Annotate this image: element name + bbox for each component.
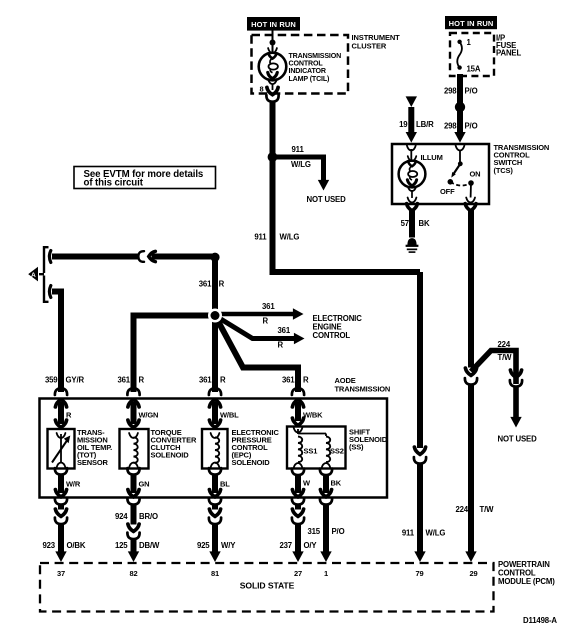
wire 361 R from connector A [49, 251, 138, 263]
svg-text:924: 924 [115, 512, 128, 521]
wire 125 DB/W [115, 539, 160, 553]
label 361 R mid [199, 280, 225, 289]
connector into AODE col4 [292, 388, 304, 407]
svg-text:BR/O: BR/O [139, 512, 158, 521]
svg-text:82: 82 [129, 569, 137, 578]
wire from HOT IN RUN to lamp [272, 31, 274, 54]
svg-text:R: R [278, 341, 284, 350]
label 359 GY/R [45, 376, 85, 385]
svg-text:224: 224 [498, 340, 511, 349]
svg-text:(SS): (SS) [349, 443, 364, 452]
svg-text:GN: GN [139, 480, 150, 489]
svg-text:27: 27 [294, 569, 302, 578]
svg-text:361: 361 [282, 376, 295, 385]
svg-text:361: 361 [117, 376, 130, 385]
sensor TOT [48, 428, 113, 469]
svg-text:P/O: P/O [465, 87, 478, 96]
svg-text:O/BK: O/BK [67, 541, 86, 550]
wire 315 P/O [307, 505, 344, 554]
svg-text:79: 79 [415, 569, 423, 578]
connector out of AODE col4 [292, 490, 304, 505]
solenoid TCC [120, 428, 197, 469]
wire arrow 361 R electronic engine control 2 [215, 316, 305, 350]
switch contacts TCS [440, 150, 480, 198]
wire W/GN to TCC solenoid [128, 402, 158, 427]
svg-text:SOLENOID: SOLENOID [151, 451, 190, 460]
label 361 R col2 [117, 376, 144, 385]
svg-text:37: 37 [57, 569, 65, 578]
svg-text:361: 361 [199, 280, 212, 289]
fuse 15A [457, 38, 481, 74]
wire W from SS1 [292, 469, 311, 493]
wire 237 O/Y [279, 505, 317, 554]
wire W/BK to shift solenoid [292, 402, 323, 425]
svg-text:W/Y: W/Y [221, 541, 236, 550]
wire 224 T/W from TCS switch [465, 198, 476, 368]
wire branch 911 W/LG not used [273, 145, 347, 204]
svg-text:NOT USED: NOT USED [307, 195, 347, 204]
lamp TCIL [259, 48, 341, 84]
svg-text:W/LG: W/LG [280, 233, 300, 242]
svg-text:SENSOR: SENSOR [77, 458, 109, 467]
label 911 W/LG lower [402, 529, 445, 538]
note box See EVTM [74, 167, 216, 189]
connector out of AODE col2 [127, 490, 139, 505]
connector in not-used branch [498, 370, 538, 443]
svg-text:361: 361 [262, 302, 275, 311]
svg-text:TRANSMISSION: TRANSMISSION [335, 384, 391, 393]
svg-text:224: 224 [455, 505, 468, 514]
svg-text:LAMP (TCIL): LAMP (TCIL) [289, 75, 331, 83]
solenoid EPC [202, 428, 279, 469]
svg-text:911: 911 [402, 529, 415, 538]
AODE transmission box [40, 376, 391, 498]
wire 19 LB/R feed [399, 96, 434, 150]
svg-text:81: 81 [211, 569, 219, 578]
node junction on 911 wire [268, 152, 278, 162]
svg-text:MODULE (PCM): MODULE (PCM) [498, 577, 555, 586]
inline connector in 361 wire [138, 251, 155, 262]
power feed HOT IN RUN (instrument cluster) [247, 17, 300, 31]
connector arrow into PCM pin 82 [128, 551, 139, 562]
svg-text:BK: BK [331, 479, 342, 488]
wire 224 T/W to PCM [468, 385, 474, 554]
svg-text:8: 8 [259, 85, 263, 94]
wire branch 224 T/W not used [471, 340, 516, 384]
label 224 T/W lower [455, 505, 494, 514]
svg-text:57: 57 [401, 219, 409, 228]
svg-text:PANEL: PANEL [496, 49, 521, 58]
wire W/R from TOT sensor [55, 468, 81, 493]
label 361 R col4 [282, 376, 309, 385]
svg-text:315: 315 [307, 527, 320, 536]
connector arrow into PCM pin 29 [465, 551, 476, 562]
svg-text:1: 1 [324, 569, 328, 578]
svg-text:P/O: P/O [465, 122, 478, 131]
label 911 W/LG [254, 233, 299, 242]
instrument cluster box [252, 33, 401, 94]
svg-text:237: 237 [279, 541, 292, 550]
connector into AODE col2 [127, 388, 139, 407]
svg-text:15A: 15A [467, 65, 481, 74]
svg-text:CLUSTER: CLUSTER [352, 42, 387, 51]
svg-text:SS2: SS2 [330, 447, 344, 456]
wire 57 BK to ground [401, 198, 430, 238]
wire lamp output through connector [266, 84, 278, 102]
svg-text:DB/W: DB/W [139, 541, 160, 550]
wire GN from TCC solenoid [127, 468, 149, 493]
wire 298 P/O from fuse [457, 74, 463, 134]
svg-text:SOLENOID: SOLENOID [232, 458, 271, 467]
connector arrow into PCM pin 27 [292, 551, 303, 562]
solenoid SS shift [287, 427, 388, 469]
connector arrow into TCS [454, 132, 465, 151]
lamp ILLUM [399, 149, 443, 198]
powertrain control module box PCM [40, 560, 555, 612]
wire 923 O/BK [42, 505, 85, 554]
svg-text:361: 361 [199, 376, 212, 385]
svg-text:T/W: T/W [498, 353, 513, 362]
svg-text:BK: BK [419, 219, 430, 228]
node corner dot [210, 253, 219, 262]
svg-text:R: R [66, 411, 72, 420]
wire arrow 361 R electronic engine control 1 [215, 302, 304, 326]
wire BL from EPC solenoid [209, 468, 230, 493]
label electronic engine control [313, 314, 363, 340]
svg-text:923: 923 [42, 541, 55, 550]
wire 925 W/Y [197, 505, 236, 554]
svg-text:D11498-A: D11498-A [523, 616, 557, 625]
wire W/BL to EPC solenoid [209, 402, 239, 427]
svg-text:298: 298 [444, 122, 457, 131]
connector out of AODE col3 [209, 490, 221, 505]
svg-text:R: R [220, 376, 226, 385]
label 361 R col3 [199, 376, 226, 385]
connector in 911 wire [414, 447, 426, 464]
svg-text:359: 359 [45, 376, 58, 385]
ground symbol [406, 238, 419, 253]
wire 911 W/LG lower [417, 464, 423, 554]
svg-text:298: 298 [444, 87, 457, 96]
label 298 P/O upper [444, 87, 478, 96]
connector arrow into PCM pin 79 [414, 551, 425, 562]
connector arrow into PCM pin 1 [320, 551, 331, 562]
svg-text:W/GN: W/GN [139, 411, 159, 420]
svg-text:NOT USED: NOT USED [498, 435, 538, 444]
wire 911 W/LG to PCM [273, 272, 421, 448]
svg-text:CONTROL: CONTROL [313, 331, 351, 340]
svg-text:W/BL: W/BL [220, 411, 239, 420]
svg-text:HOT IN RUN: HOT IN RUN [251, 20, 296, 29]
connector into AODE col1 [55, 388, 67, 407]
svg-text:SOLID STATE: SOLID STATE [240, 581, 295, 591]
svg-text:W/R: W/R [66, 480, 81, 489]
svg-text:W/BK: W/BK [303, 411, 323, 420]
svg-text:19: 19 [399, 120, 408, 129]
svg-text:P/O: P/O [332, 527, 345, 536]
connector arrow into PCM pin 81 [209, 551, 220, 562]
svg-text:R: R [263, 317, 269, 326]
node splice on TCIL feed [270, 40, 276, 46]
wire 361 R down to junction [212, 257, 218, 392]
svg-text:125: 125 [115, 541, 128, 550]
connector arrow into PCM pin 37 [55, 551, 66, 562]
svg-text:OFF: OFF [440, 187, 455, 196]
transmission control switch box TCS [392, 143, 549, 204]
wire 911 W/LG from TCIL down [270, 102, 276, 276]
svg-text:LB/R: LB/R [416, 120, 434, 129]
svg-text:W: W [303, 479, 311, 488]
svg-text:R: R [303, 376, 309, 385]
bracket of connector A [39, 247, 49, 302]
svg-text:911: 911 [292, 145, 305, 154]
label 298 P/O lower [444, 122, 478, 131]
node splice on 298 wire [455, 102, 465, 112]
wire 359 GY/R from connector A [49, 286, 61, 392]
wire 924 BR/O [115, 505, 158, 540]
svg-text:R: R [219, 280, 225, 289]
svg-text:ON: ON [470, 170, 481, 179]
svg-text:W/LG: W/LG [291, 160, 311, 169]
svg-text:O/Y: O/Y [304, 541, 318, 550]
svg-text:of this circuit: of this circuit [84, 178, 144, 189]
svg-text:GY/R: GY/R [66, 376, 85, 385]
svg-text:A: A [31, 272, 36, 279]
svg-text:925: 925 [197, 541, 210, 550]
wire BK from SS2 [320, 469, 342, 493]
svg-text:SS1: SS1 [304, 447, 318, 456]
svg-text:INSTRUMENT: INSTRUMENT [352, 33, 401, 42]
connector into AODE col3 [209, 388, 221, 407]
svg-text:ILLUM: ILLUM [421, 153, 443, 162]
connector out of AODE col1 [55, 490, 67, 505]
svg-text:R: R [139, 376, 145, 385]
wire R to TOT sensor [55, 402, 72, 427]
I/P fuse panel box [450, 33, 521, 76]
svg-text:911: 911 [254, 233, 267, 242]
svg-text:(TCS): (TCS) [494, 166, 514, 175]
wire 361 R diagonal to shift solenoid [215, 316, 298, 393]
node junction 361 [208, 309, 222, 323]
svg-text:BL: BL [220, 480, 230, 489]
svg-text:29: 29 [469, 569, 477, 578]
connector in 224 wire [465, 368, 477, 385]
connector A triangle [28, 267, 38, 282]
power feed HOT IN RUN (fuse panel) [445, 16, 497, 29]
wire 361 R to corner [152, 254, 216, 260]
wire 361 R branch to TCC solenoid [134, 313, 216, 393]
svg-text:W/LG: W/LG [426, 529, 446, 538]
connector out of AODE col5 [320, 490, 332, 505]
svg-text:HOT IN RUN: HOT IN RUN [449, 19, 494, 28]
svg-text:T/W: T/W [480, 505, 495, 514]
svg-text:361: 361 [278, 326, 291, 335]
